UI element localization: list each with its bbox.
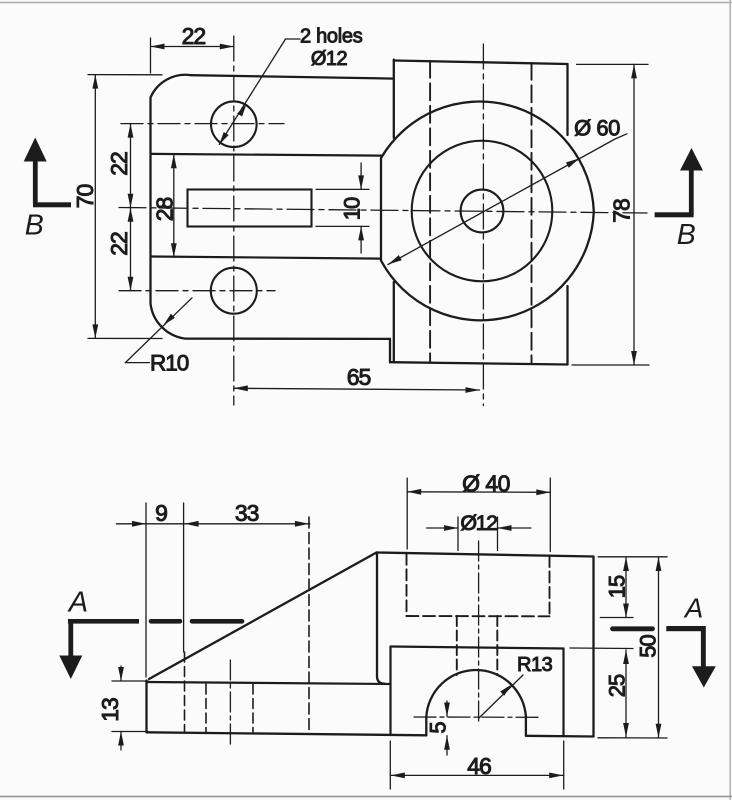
part left edge: [145, 681, 147, 733]
scan border top: [0, 2, 732, 4]
svg-text:25: 25: [605, 674, 630, 697]
svg-text:50: 50: [636, 635, 661, 658]
front face right edge: [562, 649, 564, 737]
cylinder left silhouette with fillet: [377, 553, 385, 684]
centerline notch horizontal: [414, 716, 540, 718]
hidden bore Ø40 bottom: [407, 615, 550, 617]
bottom edge left of notch: [147, 732, 427, 735]
dim 46: [390, 741, 563, 789]
hidden slot right end: [308, 517, 310, 732]
dim 70: [88, 75, 162, 339]
centerline hole top: [121, 123, 284, 125]
svg-text:22: 22: [106, 152, 132, 176]
tongue top edge: [152, 154, 381, 156]
centerline holes front: [229, 660, 231, 745]
scan border bottom: [0, 796, 732, 798]
section arrow B right: [655, 148, 703, 217]
base plate outline (rounded corners R10): [151, 75, 394, 362]
dim Ø60 diagonal: [388, 134, 627, 265]
base top edge: [147, 682, 390, 684]
label R13 leader: [479, 675, 523, 718]
svg-text:33: 33: [235, 500, 259, 526]
svg-text:78: 78: [609, 199, 635, 223]
svg-text:B: B: [677, 219, 696, 251]
bottom edge right of notch: [526, 735, 594, 738]
label 2 holes Ø12 with leader: [219, 39, 300, 145]
svg-text:Ø 40: Ø 40: [462, 471, 510, 497]
hidden hole edge right: [252, 684, 254, 732]
hole top Ø12: [211, 101, 257, 147]
svg-text:Ø 60: Ø 60: [574, 116, 620, 141]
svg-text:70: 70: [72, 185, 98, 209]
centerline boss vertical: [482, 44, 484, 406]
svg-text:R13: R13: [517, 654, 553, 676]
dim 5: [446, 701, 448, 755]
svg-text:22: 22: [106, 232, 132, 256]
svg-text:A: A: [683, 593, 703, 624]
centerline horizontal main: [119, 208, 647, 214]
block right edge: [566, 64, 568, 365]
dim 22 top: [151, 38, 234, 73]
block bottom edge: [390, 362, 568, 364]
svg-text:65: 65: [347, 364, 371, 390]
svg-text:Ø12: Ø12: [460, 511, 497, 535]
hidden bore Ø40 left: [406, 554, 408, 616]
tongue bottom edge: [152, 257, 381, 259]
centerline holes vertical: [233, 36, 235, 405]
hidden hole Ø12 right: [496, 616, 498, 675]
dim Ø12: [427, 517, 531, 551]
centerline bore vertical: [478, 541, 480, 724]
svg-text:Ø12: Ø12: [311, 48, 348, 70]
hidden notch line left: [429, 61, 431, 363]
dim 22 left lower: [130, 208, 132, 291]
svg-text:2 holes: 2 holes: [300, 26, 363, 48]
section line dashes left: [151, 619, 242, 624]
svg-text:10: 10: [340, 197, 365, 220]
section arrow A right: [666, 626, 716, 688]
svg-text:5: 5: [426, 721, 451, 733]
dim Ø40: [407, 478, 550, 552]
svg-text:A: A: [67, 587, 88, 619]
svg-text:28: 28: [152, 198, 178, 222]
slot rectangle: [188, 190, 312, 227]
front face top edge: [391, 647, 564, 649]
svg-text:B: B: [25, 209, 44, 241]
top edge: [377, 553, 594, 557]
section arrow A left: [59, 619, 139, 679]
section arrow B left: [24, 138, 71, 208]
center hole circle: [461, 190, 504, 233]
bore circle Ø40: [412, 141, 553, 282]
dim 15: [598, 557, 667, 618]
svg-text:13: 13: [97, 698, 123, 722]
svg-text:15: 15: [605, 575, 630, 598]
dim 10 slot: [316, 163, 369, 253]
dim 50: [598, 557, 667, 738]
notch R13 arch: [426, 670, 526, 736]
svg-text:R10: R10: [150, 351, 189, 376]
front face left edge: [389, 647, 391, 736]
hidden bore Ø40 right: [549, 556, 551, 616]
dim 78: [572, 64, 649, 365]
hidden slot left end: [184, 652, 186, 732]
hidden hole Ø12 left: [456, 616, 458, 675]
scan border right: [729, 0, 731, 800]
svg-text:9: 9: [155, 500, 168, 526]
dim 9 and 33: [116, 503, 309, 677]
hidden hole edge left: [205, 684, 207, 732]
label R10 leader: [125, 298, 192, 363]
dim 25: [570, 648, 633, 737]
wedge slope: [149, 553, 377, 680]
section line dash right: [613, 626, 653, 631]
dim 13: [112, 666, 148, 750]
dim 65: [234, 388, 480, 390]
dim 28: [173, 154, 175, 257]
svg-text:46: 46: [467, 753, 491, 779]
boss outer circle Ø60 with left flat: [381, 102, 594, 321]
hole bottom Ø12: [211, 268, 257, 314]
right edge: [592, 557, 594, 737]
svg-text:22: 22: [182, 23, 206, 49]
hidden notch line right: [531, 63, 533, 364]
dim 22 left upper: [130, 124, 132, 208]
centerline hole bottom: [119, 290, 275, 292]
block left edge: [393, 60, 395, 363]
block top edge: [394, 61, 568, 65]
